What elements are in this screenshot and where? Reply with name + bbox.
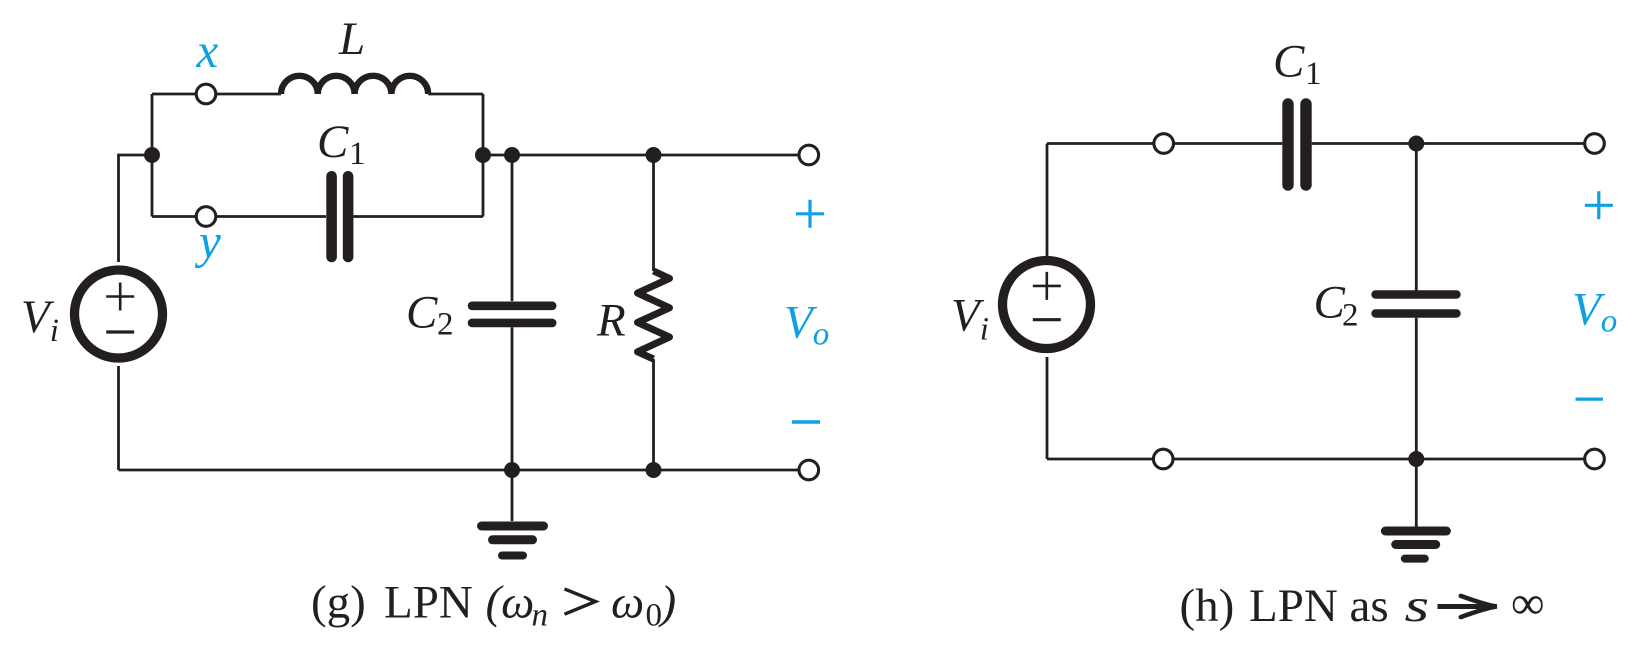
- node C2-tap junction dot: [504, 147, 520, 163]
- capacitor C1 plates: [332, 176, 349, 257]
- svg-text:C: C: [1273, 35, 1305, 87]
- wire terminal x to inductor: [216, 93, 282, 96]
- svg-text:1: 1: [349, 136, 366, 172]
- label minus output (left, cyan): [792, 420, 820, 424]
- node R-tap junction dot: [646, 147, 662, 163]
- node B junction dot: [475, 147, 491, 163]
- svg-text:x: x: [196, 23, 219, 78]
- node R-bottom junction dot: [646, 462, 662, 478]
- svg-text:C: C: [406, 286, 438, 338]
- node C2-top junction dot (h): [1408, 136, 1424, 152]
- wire C2 top branch (h): [1415, 144, 1418, 292]
- caption (h) arrow: [1438, 604, 1493, 609]
- svg-text:LPN as: LPN as: [1249, 580, 1389, 632]
- output terminal bottom (h): [1585, 449, 1605, 469]
- node C2-bottom junction dot (h): [1408, 451, 1424, 467]
- wire bottom rail right segment (h): [1173, 458, 1585, 461]
- voltage source Vi (left): [75, 270, 163, 358]
- svg-text:C: C: [317, 116, 349, 168]
- wire left vertical to Vi top (h): [1046, 144, 1049, 262]
- ground (right circuit): [1385, 531, 1446, 559]
- wire C2 bottom to ground (h): [1415, 318, 1418, 527]
- svg-text:R: R: [596, 294, 626, 346]
- wire R top branch: [652, 155, 655, 271]
- wire C2 top branch: [511, 155, 514, 301]
- svg-text:n: n: [532, 598, 549, 634]
- terminal y open circle: [196, 207, 216, 227]
- label minus output (h, cyan): [1576, 397, 1604, 400]
- wire C1 to right vertical: [353, 215, 483, 218]
- svg-text:(ω: (ω: [486, 577, 535, 629]
- svg-text:2: 2: [1342, 297, 1359, 333]
- output terminal bottom (left circuit): [799, 460, 819, 480]
- wire C2 bottom to ground: [511, 327, 514, 521]
- wire left vertical branch of LC parallel: [151, 94, 154, 217]
- capacitor C2 plates (h): [1376, 295, 1457, 314]
- wire top branch left segment to terminal x: [152, 93, 197, 96]
- wire bottom branch left segment to terminal y: [152, 215, 197, 218]
- svg-text:): ): [658, 577, 677, 629]
- wire R bottom branch: [652, 359, 655, 470]
- capacitor C2 plates: [472, 306, 552, 323]
- wire Vi top to node A (left circuit): [119, 155, 150, 262]
- wire bottom rail left segment (h): [1047, 458, 1153, 461]
- svg-text:2: 2: [437, 307, 454, 343]
- terminal top-left open circle (h): [1154, 134, 1174, 154]
- wire output rail top (left circuit): [483, 154, 799, 157]
- svg-text:LPN: LPN: [384, 577, 473, 629]
- inductor L: [281, 76, 428, 94]
- svg-text:(h): (h): [1180, 580, 1235, 632]
- wire C1 to output terminal (h): [1312, 142, 1585, 145]
- wire inductor to right vertical: [428, 93, 483, 96]
- label + output (h, cyan): [1585, 191, 1613, 219]
- resistor R zigzag: [638, 271, 670, 359]
- capacitor C1 plates (h): [1288, 104, 1306, 185]
- svg-text:s: s: [1405, 580, 1430, 632]
- svg-text:∞: ∞: [1511, 578, 1545, 630]
- output terminal top (left circuit): [799, 145, 819, 165]
- node A junction dot: [144, 147, 160, 163]
- node C2-bottom junction dot: [504, 462, 520, 478]
- wire bottom rail (left circuit): [119, 469, 800, 472]
- wire right vertical branch of LC parallel: [482, 94, 485, 217]
- svg-text:y: y: [194, 214, 221, 269]
- wire Vi bottom (h): [1046, 357, 1049, 459]
- svg-text:1: 1: [1305, 56, 1322, 92]
- wire Vi bottom: [117, 366, 120, 470]
- svg-text:(g): (g): [311, 577, 366, 629]
- ground (left circuit): [482, 526, 544, 556]
- svg-text:L: L: [338, 13, 365, 65]
- wire terminal to C1 (h): [1174, 142, 1283, 145]
- wire top rail left segment to terminal (h): [1047, 142, 1154, 145]
- terminal x open circle: [196, 84, 216, 104]
- output terminal top (h): [1585, 134, 1605, 154]
- wire terminal y to capacitor C1: [216, 215, 327, 218]
- svg-text:C: C: [1314, 276, 1346, 328]
- svg-text:ω: ω: [611, 577, 644, 629]
- terminal bottom-left open circle (h): [1153, 449, 1173, 469]
- voltage source Vi (right): [1003, 261, 1091, 349]
- label + output (left, cyan): [796, 200, 824, 228]
